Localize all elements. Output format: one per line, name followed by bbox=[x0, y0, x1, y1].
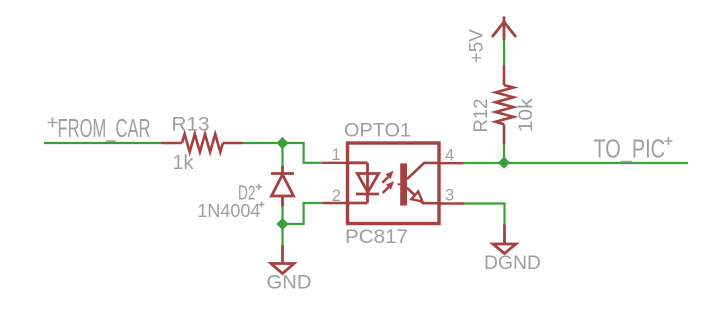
svg-text:1k: 1k bbox=[173, 152, 195, 174]
OPTO1 pin 4 lead bbox=[439, 162, 464, 164]
svg-text:10k: 10k bbox=[515, 98, 537, 132]
OPTO1 pin 2 lead bbox=[322, 202, 347, 204]
op-toisolator OPTO1 body box bbox=[348, 143, 440, 224]
wire junction A down to D2 anode-cathode top bbox=[281, 143, 283, 166]
svg-text:4: 4 bbox=[445, 147, 454, 165]
wire junction C up to R12 bottom bbox=[503, 144, 505, 162]
svg-text:GND: GND bbox=[267, 273, 312, 294]
diode D2 value origin cross bbox=[259, 202, 265, 208]
diode D2 origin cross bbox=[256, 184, 262, 190]
wire junction B to OPTO1 pin 2 bbox=[283, 203, 323, 224]
junction C bbox=[498, 157, 510, 169]
svg-text:2: 2 bbox=[332, 187, 341, 205]
svg-text:OPTO1: OPTO1 bbox=[344, 121, 411, 142]
wire net FROM_CAR left segment bbox=[44, 142, 161, 144]
OPTO1 pin 3 lead bbox=[439, 202, 464, 204]
svg-text:DGND: DGND bbox=[484, 253, 541, 274]
svg-text:TO_PIC: TO_PIC bbox=[594, 134, 666, 164]
wire OPTO1 pin 3 to DGND bbox=[464, 204, 504, 225]
svg-text:R12: R12 bbox=[470, 99, 492, 133]
resistor R12 bbox=[496, 65, 514, 144]
TO_PIC origin cross bbox=[665, 137, 673, 145]
svg-text:+5V: +5V bbox=[466, 29, 488, 63]
FROM_CAR origin cross bbox=[48, 118, 58, 128]
wire R12 top to +5V supply bbox=[503, 40, 505, 65]
svg-text:PC817: PC817 bbox=[345, 227, 408, 248]
diode D2 bbox=[271, 166, 294, 207]
wire from R13 to junction A bbox=[243, 142, 283, 144]
wire D2 bottom to junction B bbox=[281, 207, 283, 224]
wire net TO_PIC from OPTO1 pin 4 to right edge bbox=[464, 162, 688, 164]
svg-text:3: 3 bbox=[445, 186, 454, 204]
svg-text:1N4004: 1N4004 bbox=[197, 200, 260, 221]
wire junction A to OPTO1 pin 1 bbox=[283, 143, 323, 163]
OPTO1 pin 1 lead bbox=[322, 162, 347, 164]
svg-text:FROM_CAR: FROM_CAR bbox=[58, 113, 151, 143]
OPTO1 phototransistor bbox=[398, 163, 439, 206]
resistor R13 bbox=[161, 134, 242, 152]
svg-text:1: 1 bbox=[332, 146, 341, 164]
OPTO1 internal LED bbox=[348, 163, 380, 203]
OPTO1 light arrow upper bbox=[382, 171, 393, 183]
svg-text:R13: R13 bbox=[172, 115, 210, 136]
ground symbol GND bbox=[271, 245, 294, 274]
wire junction B down to GND bbox=[281, 224, 283, 245]
junction A bbox=[276, 137, 288, 149]
OPTO1 light arrow lower bbox=[383, 181, 395, 193]
junction B bbox=[276, 218, 288, 230]
ground symbol DGND bbox=[493, 224, 516, 253]
supply symbol +5V bbox=[492, 17, 516, 41]
